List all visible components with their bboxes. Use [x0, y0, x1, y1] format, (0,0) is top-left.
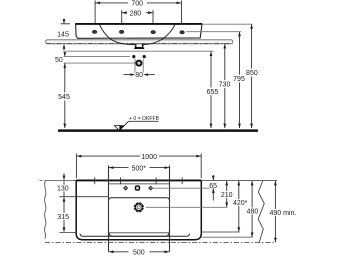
svg-text:130: 130	[57, 186, 69, 193]
svg-text:145: 145	[57, 31, 69, 38]
leader line 655 level	[66, 50, 214, 52]
bowl front extension to 420 dim	[202, 231, 240, 233]
tap hole knockout diamond right	[149, 186, 153, 190]
fixing dot left	[132, 55, 135, 58]
wall face line	[47, 180, 201, 182]
svg-text:1000: 1000	[141, 154, 157, 161]
min clearance dashed line	[45, 241, 276, 243]
leader line at 795 level from tap hole 4	[186, 31, 241, 33]
leader line to trap	[64, 62, 136, 64]
svg-text:210: 210	[221, 192, 233, 199]
bowl curve	[99, 24, 175, 44]
tap hole knockout diamond left	[124, 186, 128, 190]
tap hole 1	[92, 30, 96, 33]
svg-text:65: 65	[209, 183, 217, 190]
bowl rectangle (inner)	[109, 198, 170, 236]
svg-text:50: 50	[55, 57, 63, 64]
extension line 850 from basin top	[202, 23, 252, 25]
underbody silhouette line	[80, 234, 190, 237]
dim 850 vertical	[251, 24, 253, 128]
dim 480	[251, 181, 253, 237]
extension: 500/500* left vertical	[108, 165, 110, 252]
floor line	[58, 129, 258, 132]
towel rail bar	[46, 40, 233, 44]
dim 730 vertical	[224, 44, 226, 128]
svg-text:490 min.: 490 min.	[269, 210, 296, 217]
dim 130	[59, 173, 109, 196]
dim 315	[59, 197, 76, 232]
arrow 545 bottom	[63, 124, 66, 129]
dim 545	[64, 63, 66, 128]
trap circle	[136, 61, 141, 66]
dim 80	[124, 74, 155, 76]
svg-text:315: 315	[57, 214, 69, 221]
dim 50	[64, 52, 66, 70]
tick mark 2 on back edge	[120, 177, 122, 184]
drain circle (plan)	[134, 202, 145, 213]
tap hole 3	[151, 31, 155, 34]
svg-text:500*: 500*	[132, 165, 147, 172]
svg-text:850: 850	[246, 70, 258, 77]
dim 145	[61, 19, 70, 51]
drain stub	[136, 44, 143, 48]
wall section band (wavy break line)	[44, 181, 46, 239]
bowl bottom corners	[109, 230, 170, 237]
leader from drain to 210 dim	[146, 206, 228, 208]
svg-text:545: 545	[58, 94, 70, 101]
bowl back inner line	[109, 183, 170, 185]
svg-text:730: 730	[219, 82, 231, 89]
bowl inner bottom line	[110, 232, 169, 234]
svg-text:700: 700	[131, 1, 143, 8]
leader from right diamond to 65 dim	[153, 187, 217, 189]
tick mark 3 on back edge	[155, 177, 157, 184]
tap hole 2	[119, 30, 123, 33]
floor level marker triangle (half filled)	[115, 121, 129, 131]
svg-text:500: 500	[133, 250, 145, 257]
dim 500*	[109, 167, 169, 169]
svg-text:480: 480	[247, 208, 259, 215]
extension: 500/500* right vertical	[169, 165, 171, 252]
wall face line dashes	[40, 180, 49, 182]
zigzag break line	[258, 181, 264, 243]
dim 1000	[76, 154, 201, 178]
tap hole center	[136, 186, 140, 190]
basin plan outline	[76, 180, 201, 239]
fixing dot right	[143, 55, 146, 58]
tick mark 1 on back edge	[94, 177, 96, 184]
dashed line at rail bottom	[46, 42, 231, 44]
leader line to fixing dots	[64, 56, 131, 58]
trap guide left	[134, 59, 136, 75]
back edge extension line to right dims	[201, 180, 277, 182]
dim 210	[226, 181, 228, 207]
svg-text:655: 655	[207, 89, 219, 96]
dim 500 (bottom)	[109, 251, 169, 253]
tap hole 4	[180, 31, 184, 34]
trap guide right	[142, 59, 144, 75]
ceramic front extension to 480 dim	[202, 236, 253, 238]
dim 280	[122, 10, 153, 29]
dim 655 vertical	[210, 52, 212, 128]
svg-text:280: 280	[129, 10, 141, 17]
dim 700	[95, 0, 181, 29]
dim 65	[212, 175, 214, 201]
dim 795 vertical	[239, 32, 241, 128]
washbasin body (front elevation)	[75, 24, 202, 39]
dim 490 min	[274, 181, 276, 242]
dim 420*	[238, 181, 240, 232]
svg-text:795: 795	[233, 76, 245, 83]
tick mark 4 on back edge	[181, 177, 183, 184]
svg-text:420*: 420*	[233, 200, 248, 207]
svg-text:80: 80	[135, 72, 143, 79]
